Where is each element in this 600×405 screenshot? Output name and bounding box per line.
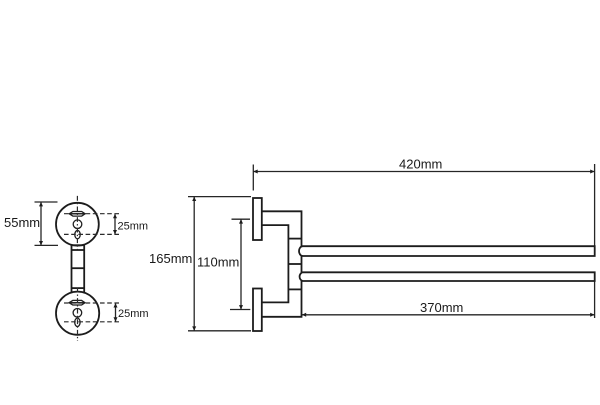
hub joint line 2 bbox=[288, 263, 301, 265]
hub joint line 3 bbox=[288, 288, 301, 290]
110mm bottom arrow bbox=[239, 305, 243, 309]
110mm top arrow bbox=[239, 219, 243, 223]
165mm dimension line bbox=[193, 197, 195, 331]
svg-text:420mm: 420mm bbox=[399, 157, 442, 172]
side view: bottom wall plate bbox=[253, 289, 262, 332]
55mm top arrow bbox=[39, 202, 43, 206]
25mm top dimension line bbox=[114, 214, 116, 234]
horizontal centerline through bottom slot bbox=[64, 302, 120, 304]
horizontal centerline through top slot bbox=[64, 213, 120, 215]
vertical centerline of top circle bbox=[76, 196, 78, 250]
front view: post lower collar line bbox=[72, 287, 85, 289]
svg-text:25mm: 25mm bbox=[118, 221, 149, 233]
370mm dimension line bbox=[302, 314, 595, 316]
165mm bottom tick bbox=[188, 330, 251, 332]
370mm right arrow bbox=[590, 313, 594, 317]
25mm bottom dim upper arrow bbox=[114, 303, 118, 307]
hub joint line 1 bbox=[288, 238, 301, 240]
370mm left arrow bbox=[302, 313, 306, 317]
bottom circle: slot middle line bbox=[69, 302, 85, 304]
370mm right extension line (below bars) bbox=[594, 281, 596, 318]
55mm bottom arrow bbox=[39, 241, 43, 245]
25mm top dim lower arrow bbox=[113, 230, 117, 234]
svg-text:110mm: 110mm bbox=[197, 255, 239, 270]
165mm top arrow bbox=[192, 197, 196, 201]
110mm dimension line bbox=[240, 219, 242, 309]
55mm bottom tick bbox=[35, 244, 59, 246]
front view: connecting post left edge bbox=[71, 245, 73, 293]
110mm bottom tick bbox=[230, 309, 250, 311]
svg-text:370mm: 370mm bbox=[420, 300, 463, 315]
420mm dimension line bbox=[253, 171, 594, 173]
horizontal centerline through bottom lower hole bbox=[64, 321, 120, 323]
front view: connecting post right edge bbox=[83, 245, 85, 293]
420mm right extension line (above bars) bbox=[594, 164, 596, 247]
svg-text:55mm: 55mm bbox=[4, 215, 40, 230]
top circle: slot middle line bbox=[69, 213, 85, 215]
horizontal centerline through top lower hole bbox=[64, 233, 120, 235]
25mm bottom dimension line bbox=[115, 304, 117, 322]
bottom circle: lower screw hole (ellipse) bbox=[75, 318, 80, 326]
front view: bottom mounting plate circle bbox=[56, 292, 99, 335]
25mm bottom dim lower arrow bbox=[114, 317, 118, 321]
side view: top wall plate bbox=[253, 198, 262, 240]
svg-text:25mm: 25mm bbox=[118, 308, 149, 320]
side view: bracket outer outline (top arm top edge, right edge, bottom arm bottom edge) bbox=[262, 211, 302, 316]
top circle: screw slot (pointed oval) bbox=[69, 212, 85, 217]
55mm dimension line bbox=[40, 202, 42, 245]
25mm top dim upper arrow bbox=[113, 214, 117, 218]
420mm left arrow bbox=[253, 170, 257, 174]
svg-text:165mm: 165mm bbox=[149, 251, 192, 266]
110mm top tick bbox=[232, 218, 251, 220]
top circle: lower screw hole (ellipse) bbox=[75, 230, 80, 238]
bottom circle: center screw hole bbox=[73, 309, 82, 318]
420mm right arrow bbox=[590, 170, 594, 174]
side view: bracket inner outline (arm inner edges + hub left edge) bbox=[262, 225, 289, 302]
towel bar 2 (lower) with rounded left cap bbox=[300, 272, 595, 281]
front view: top mounting plate circle bbox=[56, 203, 99, 246]
front view: post middle joint line bbox=[72, 267, 85, 269]
165mm bottom arrow bbox=[192, 326, 196, 330]
front view: post upper collar line bbox=[72, 249, 85, 251]
420mm left extension line bbox=[252, 165, 254, 191]
front view: post top cap line bbox=[71, 244, 85, 246]
towel bar 1 (upper) with rounded left cap bbox=[299, 246, 595, 256]
vertical centerline of bottom circle bbox=[77, 288, 79, 342]
top circle: center screw hole bbox=[73, 220, 82, 229]
165mm top tick bbox=[188, 196, 251, 198]
bottom circle: screw slot (pointed oval) bbox=[69, 300, 85, 305]
55mm top tick bbox=[35, 201, 58, 203]
